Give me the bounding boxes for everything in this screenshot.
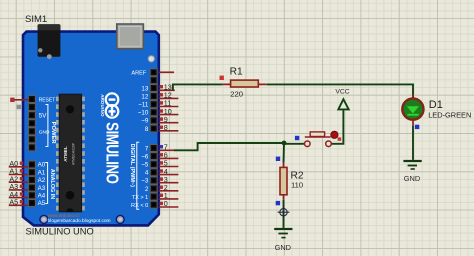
- SIMULINO UNO board SIM1: [23, 32, 159, 226]
- svg-text:~10: ~10: [138, 110, 149, 117]
- digital pin stub labels right side: [159, 83, 179, 209]
- svg-text:A5: A5: [9, 198, 18, 207]
- svg-text:blogembarcado.blogspot.com: blogembarcado.blogspot.com: [48, 218, 111, 224]
- node junction: [282, 141, 287, 146]
- RESET pin stub: [11, 99, 28, 101]
- wire junction to R2: [283, 143, 286, 163]
- svg-text:~9: ~9: [141, 118, 149, 125]
- USB connector: [117, 24, 144, 49]
- svg-text:SIM1: SIM1: [25, 14, 47, 25]
- wire pin13 to R1: [173, 84, 223, 90]
- svg-text:DIGITAL (PWM~): DIGITAL (PWM~): [129, 144, 135, 188]
- svg-text:RESET: RESET: [39, 97, 56, 103]
- svg-text:A5: A5: [38, 200, 46, 207]
- Arduino logo: [106, 93, 119, 117]
- svg-text:RX < 0: RX < 0: [131, 203, 148, 209]
- svg-text:A1: A1: [38, 169, 46, 176]
- mounting hole bottom right: [116, 215, 124, 223]
- ATmega328P chip: [56, 94, 85, 212]
- svg-text:SIMULINO: SIMULINO: [102, 122, 121, 184]
- power VCC: [335, 89, 349, 110]
- wire R1 to LED: [267, 84, 413, 98]
- svg-text:TX > 1: TX > 1: [132, 195, 149, 201]
- svg-text:GND: GND: [39, 129, 50, 135]
- svg-text:www.arduino.cc: www.arduino.cc: [48, 213, 81, 218]
- svg-text:0: 0: [164, 199, 168, 208]
- svg-text:A4: A4: [38, 193, 46, 200]
- AREF pin stub: [159, 71, 174, 73]
- wire LED to ground: [412, 126, 414, 160]
- svg-text:13: 13: [141, 85, 148, 92]
- svg-text:8: 8: [164, 123, 168, 132]
- svg-text:12: 12: [141, 93, 148, 100]
- svg-text:R1: R1: [230, 66, 243, 77]
- right digital pin header lower: [150, 145, 157, 209]
- svg-text:8: 8: [145, 126, 149, 133]
- svg-text:4: 4: [145, 170, 149, 177]
- svg-text:~6: ~6: [141, 153, 149, 160]
- svg-text:VCC: VCC: [335, 89, 349, 96]
- svg-text:GND: GND: [275, 243, 291, 252]
- svg-text:220: 220: [230, 90, 243, 99]
- wire junction to button: [284, 143, 304, 145]
- svg-text:D1: D1: [429, 99, 443, 111]
- left power pin header: [28, 96, 35, 151]
- svg-text:5V: 5V: [39, 112, 47, 119]
- resistor R2: [276, 157, 304, 206]
- origin marker node: [278, 206, 290, 218]
- resistor R1: [220, 66, 267, 98]
- push button: [295, 131, 341, 146]
- mounting hole bottom left: [40, 215, 48, 223]
- svg-text:A3: A3: [38, 185, 46, 192]
- origin marker: [17, 105, 22, 110]
- svg-text:~3: ~3: [141, 178, 149, 185]
- wire button to VCC: [331, 109, 343, 143]
- svg-text:ARDUINO: ARDUINO: [100, 94, 105, 117]
- svg-text:SIMULINO UNO: SIMULINO UNO: [26, 227, 94, 237]
- svg-text:AREF: AREF: [131, 71, 147, 77]
- svg-text:ANALOG IN: ANALOG IN: [49, 169, 55, 199]
- LED D1: [402, 95, 471, 130]
- right digital pin header upper: [150, 69, 157, 132]
- svg-text:~11: ~11: [138, 102, 149, 109]
- ground under R2: [274, 228, 292, 252]
- wire pin7 to junction: [174, 143, 284, 150]
- wire R2 to ground: [283, 200, 285, 228]
- svg-text:A0: A0: [38, 162, 46, 169]
- svg-text:~5: ~5: [141, 162, 149, 169]
- svg-text:GND: GND: [404, 174, 420, 183]
- svg-text:LED-GREEN: LED-GREEN: [428, 111, 471, 120]
- svg-text:A2: A2: [38, 177, 46, 184]
- ground under LED: [403, 160, 421, 183]
- analog pin stub labels left side: [9, 159, 28, 207]
- left analog pin header: [28, 161, 35, 207]
- svg-text:2: 2: [145, 186, 149, 193]
- svg-text:ATMEL: ATMEL: [63, 146, 68, 162]
- board pin name labels: [38, 71, 149, 209]
- svg-text:110: 110: [291, 181, 303, 190]
- svg-text:7: 7: [145, 145, 149, 152]
- svg-text:ATMEGA328P: ATMEGA328P: [72, 142, 76, 165]
- svg-text:POWER: POWER: [50, 122, 56, 145]
- mounting hole top right: [148, 56, 154, 62]
- DC power jack: [38, 24, 61, 57]
